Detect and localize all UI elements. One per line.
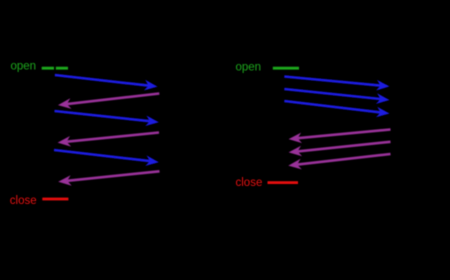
left panel client lifeline (black) (56, 52, 58, 214)
right close tick (red) (268, 181, 299, 184)
left request arrow 2 (blue) (55, 111, 159, 126)
left panel server lifeline (black) (157, 52, 159, 214)
svg-text:no pipelining: no pipelining (70, 10, 143, 25)
right response arrow 3 (purple) (288, 154, 390, 169)
right panel server lifeline (black) (388, 52, 390, 214)
right response arrow 2 (purple) (289, 142, 391, 157)
svg-text:open: open (236, 62, 262, 74)
left response arrow 2 (purple) (58, 133, 159, 147)
svg-text:close: close (10, 195, 37, 207)
svg-text:server: server (141, 34, 174, 48)
right request arrow 3 (blue) (284, 101, 389, 117)
svg-text:client: client (272, 34, 301, 48)
svg-text:client: client (42, 34, 71, 48)
left open dashed tick (green) (42, 67, 68, 70)
left response arrow 3 (purple) (58, 171, 159, 185)
svg-text:close: close (236, 177, 263, 189)
left request arrow 1 (blue, client to server) (55, 75, 158, 90)
right request arrow 1 (blue) (284, 77, 389, 91)
right request arrow 2 (blue) (284, 89, 389, 104)
right panel client lifeline (black) (286, 52, 288, 214)
svg-text:open: open (11, 61, 37, 73)
left response arrow 1 (purple, server to client) (58, 94, 159, 109)
svg-text:server: server (372, 34, 405, 48)
left request arrow 3 (blue) (54, 150, 159, 166)
right response arrow 1 (purple) (289, 130, 391, 144)
svg-text:pipelining: pipelining (310, 10, 365, 25)
left close tick (red) (42, 198, 68, 201)
right open tick (green) (273, 67, 299, 70)
